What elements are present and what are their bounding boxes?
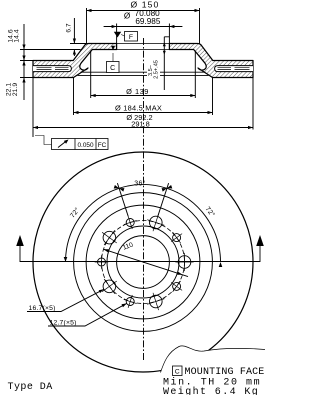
hole 12.7 at 36deg xyxy=(173,234,181,242)
far edges through vent opening xyxy=(78,72,209,75)
dim 70 extension lines xyxy=(117,24,170,44)
stud hole 16.7 at 72deg xyxy=(150,216,163,229)
stud hole 16.7 at 288deg xyxy=(150,295,163,308)
72deg arc right xyxy=(167,188,221,262)
36deg arc top xyxy=(119,185,167,189)
vent slot right xyxy=(215,66,253,72)
dim 292.2/291.8 xyxy=(33,78,253,138)
svg-text:6.7: 6.7 xyxy=(66,23,73,32)
dim 3.5/2.5 line + arrows xyxy=(164,37,169,90)
svg-text:MOUNTING FACE: MOUNTING FACE xyxy=(185,367,265,378)
datum C leader arrow xyxy=(112,53,114,62)
dim 70 line + outside arrows xyxy=(104,26,183,28)
hat circle d150 xyxy=(86,205,200,319)
bore circle d70 xyxy=(117,236,170,289)
horizontal centerline xyxy=(20,261,260,263)
dim 139 xyxy=(91,51,196,99)
svg-text:C: C xyxy=(175,369,180,376)
svg-text:F: F xyxy=(129,34,133,41)
leader 12.7(x5) xyxy=(48,303,127,326)
radial extension lines for top holes xyxy=(158,183,169,216)
dim 150 extension lines xyxy=(87,8,200,44)
dim 22.1/21.9 xyxy=(20,61,33,101)
section arrow right xyxy=(259,243,261,262)
dim 184.5 MAX xyxy=(74,78,213,116)
datum F triangle xyxy=(114,32,121,38)
stud hole 16.7 at 0deg xyxy=(178,256,191,269)
centerline disc axis xyxy=(143,38,145,362)
svg-text:291.8: 291.8 xyxy=(131,119,150,128)
svg-text:Ø 184.5 MAX: Ø 184.5 MAX xyxy=(115,104,162,113)
svg-text:12.7(×5): 12.7(×5) xyxy=(50,320,77,327)
svg-text:16.7(×5): 16.7(×5) xyxy=(29,305,56,312)
section body left (hatched) xyxy=(33,44,117,78)
vane edges right xyxy=(218,68,250,70)
GDT frame leader xyxy=(35,136,52,145)
section arrow left xyxy=(19,243,21,262)
dim 110 bolt circle xyxy=(104,249,189,276)
svg-text:21.9: 21.9 xyxy=(12,83,19,96)
dim 14.6/14.4 extension line xyxy=(20,50,73,61)
hole 12.7 at 324deg xyxy=(173,282,181,290)
dim 150 line xyxy=(87,10,200,12)
svg-text:Ø 150: Ø 150 xyxy=(131,0,160,10)
svg-text:69.985: 69.985 xyxy=(135,17,160,26)
dim 6.7 extension lines xyxy=(70,44,87,50)
datum F box xyxy=(125,32,138,42)
svg-text:14.4: 14.4 xyxy=(14,29,21,42)
far edges through bore xyxy=(117,44,170,50)
band inner circle d184.5 xyxy=(74,193,213,332)
hole 12.7 at 180deg xyxy=(98,258,106,266)
72deg arc left xyxy=(66,188,120,262)
vane edges left xyxy=(37,68,69,70)
datum C box xyxy=(107,62,120,73)
vent slot left xyxy=(33,66,71,72)
svg-text:Weight 6.4 Kg: Weight 6.4 Kg xyxy=(163,386,259,395)
svg-text:0.050: 0.050 xyxy=(78,142,94,149)
hole 12.7 at 252deg xyxy=(126,298,134,306)
outer circle xyxy=(33,152,253,372)
hole 12.7 at 108deg xyxy=(126,219,134,227)
leader 16.7(x5) xyxy=(27,289,104,311)
svg-text:2.5+.45: 2.5+.45 xyxy=(154,60,160,79)
GDT frame xyxy=(52,139,109,150)
svg-text:Ø: Ø xyxy=(124,12,131,21)
break line white area xyxy=(161,346,266,395)
stud hole 16.7 at 144deg xyxy=(103,231,116,244)
stud hole 16.7 at 216deg xyxy=(103,280,116,293)
note C mounting face xyxy=(173,366,183,376)
runout symbol xyxy=(58,141,67,148)
svg-text:Type DA: Type DA xyxy=(8,382,53,393)
break line xyxy=(161,346,266,373)
dim 6.7 line/arrows xyxy=(73,18,75,56)
svg-text:FC: FC xyxy=(98,142,107,149)
section body right (hatched) xyxy=(169,44,253,78)
svg-text:Ø 139: Ø 139 xyxy=(126,87,149,96)
svg-text:C: C xyxy=(110,65,115,72)
svg-text:36°: 36° xyxy=(134,180,146,188)
bolt circle (dashed) d110 xyxy=(102,221,185,304)
hub register circle xyxy=(107,226,179,298)
dim 3.5/2.5 text block xyxy=(147,56,160,86)
